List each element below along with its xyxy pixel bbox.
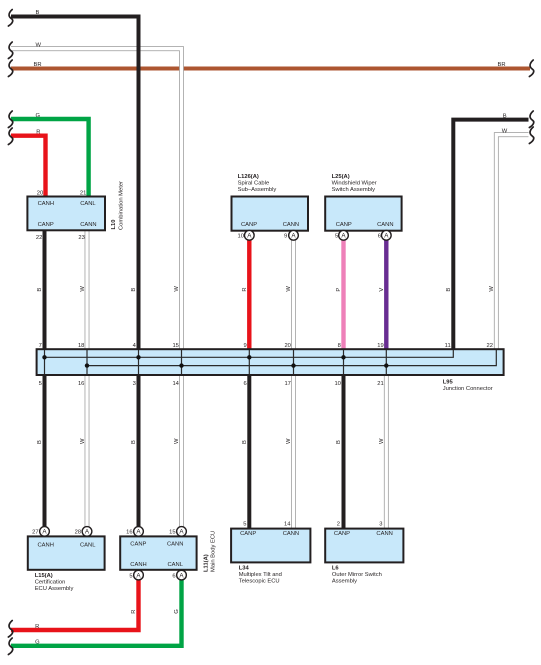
wire B top-right (black, to junction pin 11) [453,120,528,350]
svg-text:Assembly: Assembly [332,579,357,585]
L15(A) pin 28 connector circle A [82,527,92,537]
svg-text:8: 8 [338,343,341,349]
break symbol B top-left [8,10,12,27]
svg-text:15: 15 [172,343,178,349]
svg-text:B: B [37,288,43,292]
svg-text:V: V [379,288,385,292]
svg-text:22: 22 [487,343,493,349]
svg-text:L6: L6 [332,565,340,571]
wire colour labels rotated, below junction [37,438,385,444]
break symbol R left [8,128,12,145]
wire R from L11(A) CANH pin 5 to left edge [11,580,139,630]
wire W top-right (hollow white, to junction pin 22) [496,135,528,350]
svg-text:B: B [242,440,248,444]
svg-text:2: 2 [337,522,340,528]
svg-text:Switch Assembly: Switch Assembly [332,187,376,193]
svg-text:CANL: CANL [168,562,184,568]
break symbol W left [8,42,12,59]
connector L15(A) body [28,536,105,569]
wire P from L25(A) CANP pin 5 to junction pin 8 [341,240,345,350]
svg-text:ECU Assembly: ECU Assembly [35,586,74,592]
svg-text:4: 4 [133,343,137,349]
svg-text:5: 5 [335,234,338,240]
svg-text:B: B [503,113,507,119]
L15(A) pin labels [32,530,96,549]
wire W junction pin 21 to L6 pin 3 [384,374,389,530]
connector L34 body [231,529,310,563]
connector L10 body [27,197,105,231]
svg-text:G: G [174,609,180,614]
L34 name [239,565,282,584]
svg-text:W: W [286,438,292,444]
svg-text:CANH: CANH [38,201,54,207]
junction connector L95 body [37,349,504,375]
wire B from L10 CANP pin 22 to junction pin 7 [43,230,47,350]
svg-text:14: 14 [172,381,179,387]
svg-text:G: G [35,640,40,646]
svg-text:L95: L95 [443,379,454,385]
svg-text:CANN: CANN [80,222,96,228]
svg-text:W: W [80,438,86,444]
svg-text:15: 15 [169,530,175,536]
svg-text:6: 6 [243,381,246,387]
L6 name [332,565,382,584]
svg-text:W: W [174,438,180,444]
wire G (green, to L10 CANL pin 21) [11,119,89,198]
break symbol BR left [8,60,12,77]
svg-text:R: R [131,610,137,614]
wire R from L126(A) CANP pin 10 to junction pin 9 [247,240,251,350]
svg-text:Telescopic ECU: Telescopic ECU [239,579,280,585]
svg-text:BR: BR [498,62,506,68]
svg-text:Sub–Assembly: Sub–Assembly [238,187,277,193]
svg-text:CANP: CANP [240,531,256,537]
svg-text:L25(A): L25(A) [332,174,350,180]
svg-text:W: W [286,286,292,292]
svg-text:B: B [131,440,137,444]
wire BR (brown, horizontal across page) [11,67,530,71]
svg-text:6: 6 [378,234,381,240]
svg-text:W: W [502,128,508,134]
connector L25(A) body [325,197,401,231]
svg-text:3: 3 [379,522,382,528]
L15(A) pin 27 connector circle A [40,527,50,537]
L15(A) name [35,573,74,592]
L95 internal bus CANP/CANH (top) [45,350,454,357]
wire W top-left (hollow white, to junction pin 15) [11,49,182,350]
wire B junction pin 6 to L34 pin 5 [247,374,251,530]
svg-text:W: W [489,286,495,292]
svg-text:P: P [336,288,342,292]
svg-text:Main Body ECU: Main Body ECU [211,531,217,572]
svg-text:CANN: CANN [376,531,392,537]
svg-text:Combination Meter: Combination Meter [119,181,125,230]
L11(A) pin 15 connector circle A [177,527,187,537]
svg-text:5: 5 [243,522,246,528]
svg-text:11: 11 [445,343,451,349]
svg-text:CANP: CANP [336,222,352,228]
L126(A) pin 9 connector circle A [289,230,299,240]
wire B junction pin 5 to L15(A) pin 27 [43,374,47,527]
L25(A) pin labels [335,222,394,240]
svg-text:16: 16 [126,530,132,536]
L10 pin labels [36,190,97,241]
svg-text:B: B [37,440,43,444]
svg-text:3: 3 [133,381,136,387]
svg-text:W: W [174,286,180,292]
svg-text:L34: L34 [239,565,250,571]
svg-text:B: B [336,440,342,444]
svg-text:CANN: CANN [167,541,183,547]
svg-text:16: 16 [78,381,84,387]
wire colour labels rotated, bottom R/G [131,609,180,614]
svg-text:CANP: CANP [334,531,350,537]
L95 pin number labels [39,343,493,387]
L126(A) name [238,174,277,193]
L25(A) pin 6 connector circle A [381,230,391,240]
svg-text:W: W [80,286,86,292]
break symbol W right [529,127,533,144]
svg-text:CANL: CANL [80,201,96,207]
break symbol B right [529,111,533,128]
connector L11(A) body [120,536,196,569]
svg-text:L126(A): L126(A) [238,174,259,180]
svg-text:L10: L10 [111,220,117,230]
svg-text:23: 23 [78,235,84,241]
svg-text:20: 20 [37,190,43,196]
svg-text:5: 5 [129,573,132,579]
svg-text:Spiral Cable: Spiral Cable [238,181,270,187]
svg-text:21: 21 [377,381,383,387]
svg-text:6: 6 [172,573,175,579]
svg-text:21: 21 [80,190,86,196]
svg-text:22: 22 [36,235,42,241]
L126(A) pin 10 connector circle A [244,230,254,240]
svg-text:Multiplex Tilt and: Multiplex Tilt and [239,572,282,578]
L11(A) pin 6 connector circle A [177,570,187,580]
L95 junction dots [42,355,388,368]
svg-text:G: G [36,113,41,119]
wire B top-left (black, to junction pin 4) [11,17,139,351]
svg-text:Windshield Wiper: Windshield Wiper [332,181,377,187]
svg-text:9: 9 [284,234,287,240]
break symbol R bottom [8,621,12,638]
svg-text:B: B [131,288,137,292]
svg-text:19: 19 [377,343,383,349]
svg-text:CANL: CANL [80,543,96,549]
svg-text:W: W [379,438,385,444]
svg-text:CANN: CANN [283,222,299,228]
L25(A) name [332,174,377,193]
svg-text:B: B [446,288,452,292]
break symbol BR right [529,60,533,77]
svg-text:B: B [36,10,40,16]
svg-text:L11(A): L11(A) [204,554,210,572]
svg-text:CANN: CANN [377,222,393,228]
L95 name [443,379,493,392]
svg-text:17: 17 [284,381,290,387]
svg-text:14: 14 [284,522,291,528]
wire G from L11(A) CANL pin 6 to left edge [11,580,182,646]
L34 pin labels [240,522,299,537]
break symbol G bottom [8,638,12,655]
break symbol G left [8,111,12,128]
wire W junction pin 17 to L34 pin 14 [291,374,296,530]
svg-text:W: W [36,42,42,48]
svg-text:5: 5 [39,381,42,387]
svg-text:18: 18 [78,343,84,349]
wire B junction pin 3 to L11(A) pin 16 [137,374,141,527]
svg-text:CANH: CANH [38,543,54,549]
L11(A) pin 5 connector circle A [134,570,144,580]
svg-text:BR: BR [34,62,42,68]
svg-text:R: R [242,287,248,291]
wire colour labels rotated, above junction [37,286,495,292]
L95 internal bus CANN/CANL (bottom) [87,350,496,366]
svg-text:27: 27 [32,530,38,536]
svg-text:10: 10 [334,381,340,387]
svg-text:R: R [36,130,40,136]
svg-text:CANP: CANP [241,222,257,228]
svg-text:L15(A): L15(A) [35,573,53,579]
svg-text:20: 20 [284,343,290,349]
svg-text:R: R [35,624,39,630]
connector L6 body [325,529,403,563]
L11(A) pin labels [126,530,184,580]
svg-text:Outer Mirror Switch: Outer Mirror Switch [332,572,382,578]
connector L126(A) body [232,197,309,231]
wire W junction pin 16 to L15(A) pin 28 [85,374,90,527]
L11(A) pin 16 connector circle A [134,527,144,537]
wire W from L10 CANN pin 23 to junction pin 18 [85,230,90,350]
svg-text:7: 7 [39,343,42,349]
wire W from L126(A) CANN pin 9 to junction pin 20 [291,240,296,350]
svg-text:CANP: CANP [130,541,146,547]
svg-text:Certification: Certification [35,579,66,585]
svg-text:Junction Connector: Junction Connector [443,386,493,392]
svg-text:CANP: CANP [38,222,54,228]
L126(A) pin labels [238,222,300,240]
svg-text:CANH: CANH [130,562,146,568]
L6 pin labels [334,522,393,537]
wire V from L25(A) CANN pin 6 to junction pin 19 [384,240,388,350]
svg-text:CANN: CANN [283,531,299,537]
wire W junction pin 14 to L11(A) pin 15 [179,374,184,527]
L25(A) pin 5 connector circle A [339,230,349,240]
svg-text:28: 28 [75,530,81,536]
wire B junction pin 10 to L6 pin 2 [342,374,346,530]
wire R (red, to L10 CANH pin 20) [11,136,46,198]
svg-text:10: 10 [238,234,244,240]
svg-text:9: 9 [243,343,246,349]
L95 internal through-lines [45,350,387,374]
